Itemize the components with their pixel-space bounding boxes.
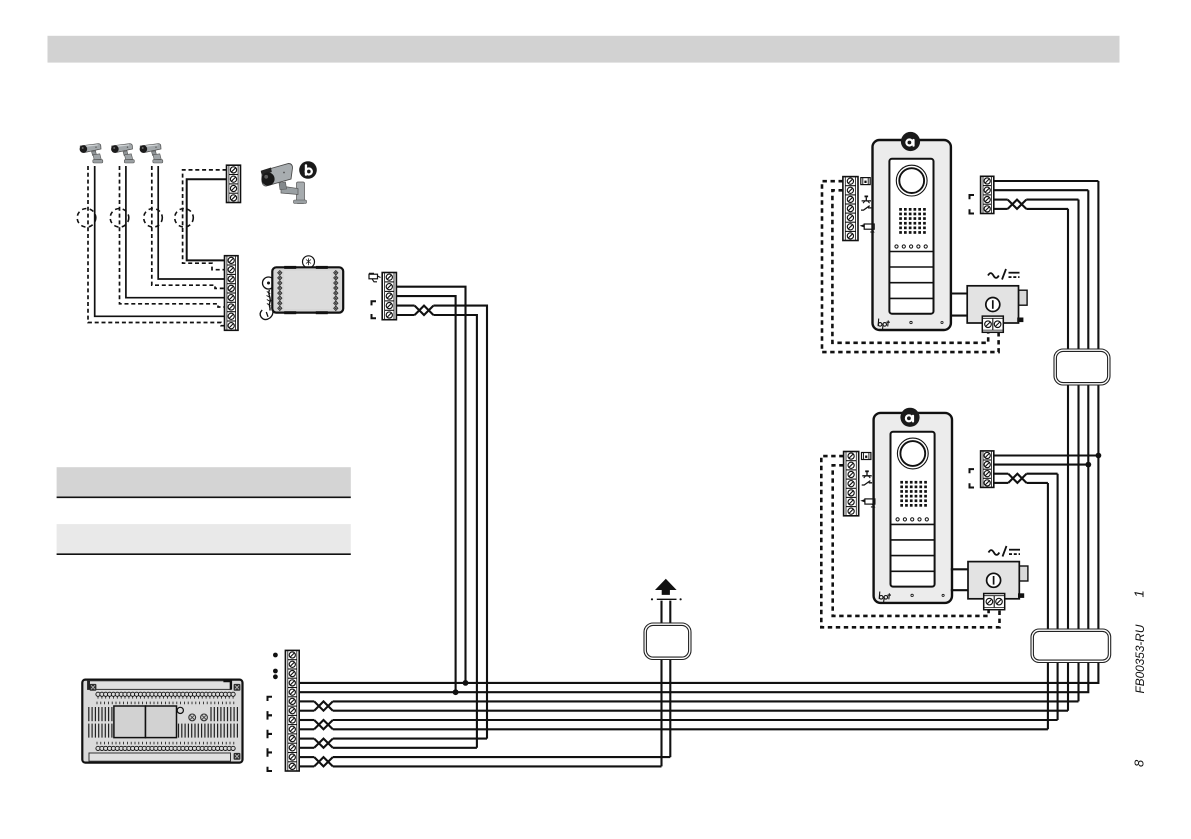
wire panel2 to lock module lower (951, 589, 968, 591)
riser wire pair t6/t7 up (1077, 200, 1079, 702)
pair bracket top block D pair 4 (268, 753, 273, 757)
pair bracket bottom block D pair 1 (268, 711, 273, 715)
camera icon block C (369, 273, 381, 282)
camera b (261, 164, 307, 204)
pair bracket bottom panel2 (970, 483, 975, 487)
camera 3 (140, 144, 163, 163)
junction box riser lower (1031, 629, 1111, 663)
icon call button (862, 196, 871, 204)
pair bracket top block D pair 3 (268, 734, 273, 738)
wire monitor t5 riser (433, 315, 477, 748)
twisted pair monitor t4/t5 (415, 306, 434, 315)
icon monitor (862, 453, 871, 460)
terminal block panel1 left (7 terminals) (843, 177, 858, 241)
junction dot bus2/monitor (453, 689, 459, 695)
junction dot panel2 t2 (1085, 462, 1091, 468)
pair bracket bottom panel1 (970, 209, 975, 213)
twisted pair bus t12/t13 (314, 757, 333, 766)
marker dot block D t1 (273, 653, 278, 658)
entry panel a (upper) (873, 140, 951, 330)
camera 2 (111, 144, 134, 163)
pair bracket top panel1 (970, 195, 975, 199)
badge b (299, 161, 317, 179)
junction box riser upper (1054, 349, 1110, 385)
entry panel a (lower) (874, 413, 952, 603)
dashed wire panel2 inner (833, 465, 989, 616)
terminal block panel1 right (4 terminals) (981, 176, 994, 213)
pair bracket bottom block D pair 4 (268, 767, 273, 771)
wire panel1 bus t1 (994, 180, 1099, 182)
icon camera (861, 224, 874, 232)
svg-text:1: 1 (1132, 590, 1147, 597)
pair bracket top panel2 (970, 469, 975, 473)
terminal block lock module 1 (2 terminals) (982, 316, 1003, 332)
wire camera 2 video (solid) (126, 166, 225, 298)
junction dot panel2 t1 (1096, 453, 1102, 459)
pair bracket bottom block C (372, 314, 377, 318)
terminal block line distributor (8 terminals) (225, 256, 239, 331)
wire camera 1 sync (dashed) (88, 166, 225, 326)
twisted pair bus t8/t9 (314, 720, 333, 729)
badge a lower (900, 408, 919, 427)
wire panel2 bus t1 (994, 454, 1099, 456)
terminal block lock module 2 (2 terminals) (984, 594, 1005, 610)
icon call button (862, 470, 871, 478)
control unit (82, 680, 242, 763)
svg-text:FB00353-RU: FB00353-RU (1133, 624, 1147, 693)
junction dot bus1/monitor (463, 680, 469, 686)
terminal block camera b (4 terminals) (227, 165, 241, 202)
junction circle 3 (144, 209, 163, 228)
pair bracket bottom block D pair 3 (268, 748, 273, 752)
svg-text:8: 8 (1132, 759, 1147, 767)
twisted pair bus t10/t11 (314, 739, 333, 748)
pair bracket bottom block D pair 2 (268, 730, 273, 734)
arrow to next riser (655, 579, 677, 595)
wire panel2 to lock module upper (951, 568, 968, 570)
terminal block panel2 right (4 terminals) (981, 451, 994, 488)
wire panel1 to lock module lower (951, 315, 967, 317)
wire panel2 pair riser upper (1027, 473, 1058, 475)
pair bracket top block D pair 1 (268, 697, 273, 701)
pair bracket top block D pair 2 (268, 715, 273, 719)
dashed wire panel2 outer (821, 456, 999, 627)
icon door contact (861, 206, 871, 210)
bus wire 2 (t5) to riser (299, 190, 1088, 692)
icon door contact (862, 481, 872, 485)
wire panel1 bus t2 (994, 189, 1089, 191)
badge a upper (901, 132, 920, 151)
wire camera 3 sync (dashed) (152, 166, 225, 288)
icon monitor (861, 178, 870, 185)
lock release module 1 (967, 286, 1027, 323)
riser wire pair t8/t9 up (to entry panel 2) (1057, 474, 1059, 720)
AC/DC symbol 1 (988, 269, 1020, 280)
junction circle 1 (77, 209, 96, 228)
junction box middle (644, 623, 691, 660)
cut line under arrow (651, 598, 682, 600)
wire camera-b terminal block to line block (dashed) (183, 170, 227, 270)
terminal block control unit (13 terminals) (285, 650, 299, 771)
dashed wire panel1 outer (822, 181, 999, 352)
twisted pair panel2 t3/t4 (1008, 474, 1026, 483)
bus wire 1 (t4) to riser (299, 181, 1098, 683)
wire monitor t4 riser (433, 306, 487, 739)
grey text bar 1 (57, 467, 351, 496)
wire panel2 bus t2 (994, 464, 1089, 466)
wire camera 2 sync (dashed) (120, 166, 225, 307)
terminal block panel2 left (7 terminals) (844, 452, 859, 516)
wire panel2 pair riser lower (1027, 482, 1048, 484)
wire camera 1 video (solid) (95, 166, 225, 316)
lock release module 2 (968, 562, 1028, 599)
dashed wire panel1 inner (832, 190, 988, 342)
interface unit (260, 256, 343, 320)
junction circle 2 (110, 209, 129, 228)
riser pair to arrow (t12/t13) (669, 601, 671, 758)
wire monitor t2 to bus (396, 287, 465, 683)
header bar (48, 36, 1120, 63)
AC/DC symbol 2 (989, 546, 1021, 557)
twisted pair bus t6/t7 (314, 701, 333, 710)
grey text bar 2 (57, 524, 351, 553)
terminal block monitor (5 terminals) (382, 273, 396, 320)
icon camera (862, 499, 875, 507)
twisted pair panel1 t3/t4 (1008, 200, 1027, 209)
wire camera 3 video (solid) (158, 166, 224, 279)
pair bracket top block C (372, 301, 377, 305)
marker dots block D t2/t3 (273, 669, 278, 674)
wire panel1 to lock module upper (951, 292, 967, 294)
camera 1 (80, 144, 103, 163)
wire monitor t3 to bus (396, 296, 455, 692)
junction circle 4 (175, 209, 194, 228)
wire camera-b terminal block to line block (solid) (187, 179, 227, 260)
